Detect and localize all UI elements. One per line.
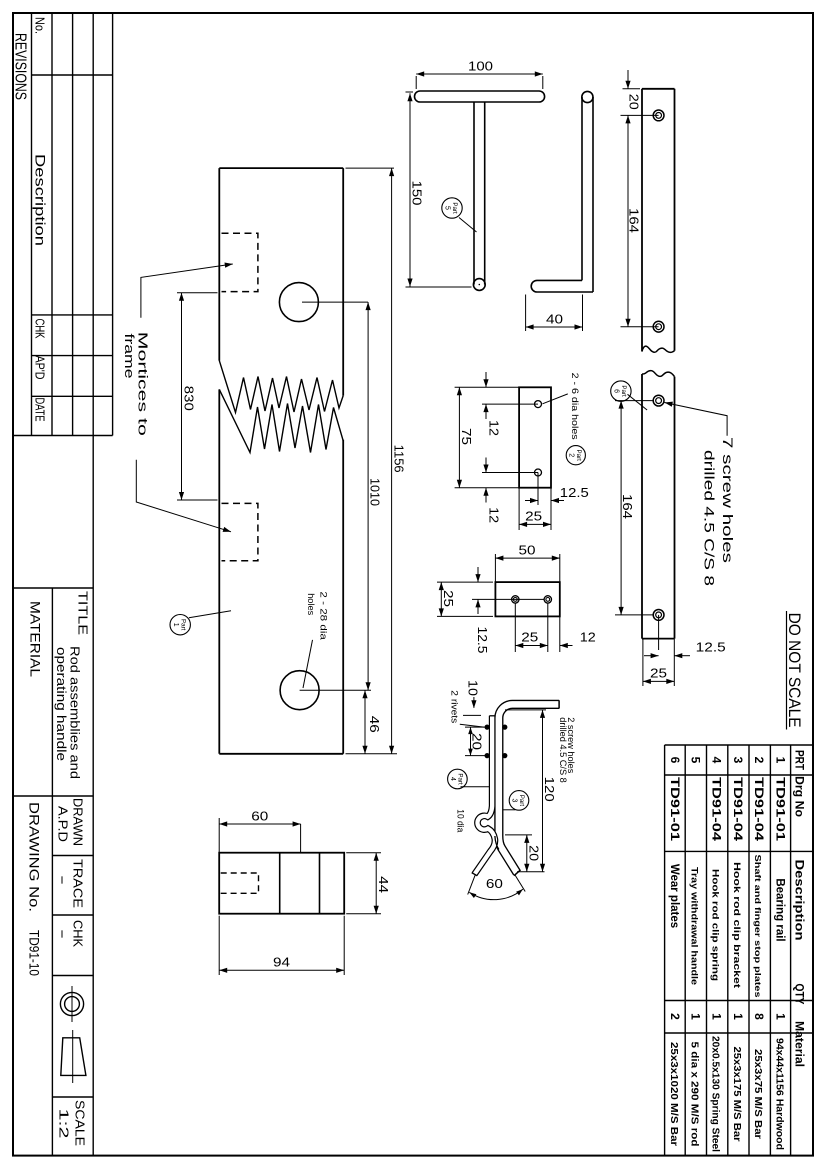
svg-text:TD91-10: TD91-10 xyxy=(27,930,42,976)
svg-text:25x3x1020 M/S Bar: 25x3x1020 M/S Bar xyxy=(668,1042,680,1146)
svg-text:holes: holes xyxy=(305,593,316,615)
svg-text:2 - 6 dia holes: 2 - 6 dia holes xyxy=(569,373,580,440)
svg-text:Hook rod clip bracket: Hook rod clip bracket xyxy=(731,862,742,989)
svg-text:8: 8 xyxy=(752,1013,766,1020)
svg-text:Bearing rail: Bearing rail xyxy=(774,878,786,941)
svg-text:TRACE: TRACE xyxy=(71,859,85,908)
svg-text:1156: 1156 xyxy=(392,445,406,473)
svg-text:1: 1 xyxy=(688,1013,702,1020)
svg-text:60: 60 xyxy=(486,877,503,891)
svg-text:12.5: 12.5 xyxy=(475,627,489,654)
svg-text:Tray withdrawal handle: Tray withdrawal handle xyxy=(688,867,699,985)
svg-text:TD91-04: TD91-04 xyxy=(710,777,722,842)
svg-text:operating handle: operating handle xyxy=(54,647,68,761)
svg-text:Part: Part xyxy=(518,795,525,807)
svg-text:Description: Description xyxy=(33,154,48,246)
svg-text:drilled 4.5 C/S 8: drilled 4.5 C/S 8 xyxy=(558,717,568,783)
svg-text:164: 164 xyxy=(620,494,634,519)
svg-text:12.5: 12.5 xyxy=(696,641,726,655)
svg-text:20: 20 xyxy=(469,733,483,750)
svg-text:164: 164 xyxy=(627,208,641,233)
svg-text:94x44x1156 Hardwood: 94x44x1156 Hardwood xyxy=(774,1038,786,1150)
svg-text:75: 75 xyxy=(459,428,473,445)
svg-text:2: 2 xyxy=(567,453,574,457)
svg-text:-: - xyxy=(56,875,70,885)
svg-text:Part: Part xyxy=(620,385,627,397)
svg-text:94: 94 xyxy=(273,956,290,970)
svg-text:60: 60 xyxy=(251,809,268,823)
svg-text:TD91-04: TD91-04 xyxy=(752,777,764,842)
svg-text:7 screw holes: 7 screw holes xyxy=(720,437,735,563)
svg-text:50: 50 xyxy=(519,543,536,557)
svg-text:REVISIONS: REVISIONS xyxy=(12,33,29,100)
svg-text:DRAWN: DRAWN xyxy=(71,798,85,846)
svg-text:12.5: 12.5 xyxy=(560,486,589,500)
svg-text:2 rivets: 2 rivets xyxy=(449,690,460,723)
svg-text:25x3x75 M/S Bar: 25x3x75 M/S Bar xyxy=(752,1049,764,1139)
svg-text:Hook rod clip spring: Hook rod clip spring xyxy=(710,869,721,981)
svg-text:44: 44 xyxy=(376,876,390,893)
svg-text:40: 40 xyxy=(546,312,563,326)
svg-text:Part: Part xyxy=(179,619,186,631)
svg-text:Description: Description xyxy=(793,860,807,941)
svg-text:12: 12 xyxy=(487,420,501,436)
svg-text:AP'D: AP'D xyxy=(33,356,47,380)
svg-text:25: 25 xyxy=(650,667,667,681)
svg-text:1: 1 xyxy=(774,757,788,764)
svg-text:TD91-01: TD91-01 xyxy=(668,777,680,842)
svg-text:5: 5 xyxy=(688,757,702,764)
svg-text:1: 1 xyxy=(774,1013,788,1020)
svg-text:DO NOT SCALE: DO NOT SCALE xyxy=(785,613,804,728)
svg-text:SCALE: SCALE xyxy=(73,1100,87,1146)
svg-text:A.P.D: A.P.D xyxy=(56,806,70,842)
svg-text:CHK: CHK xyxy=(71,920,85,948)
svg-text:6: 6 xyxy=(668,757,682,764)
svg-text:Wear plates: Wear plates xyxy=(668,864,680,928)
svg-text:TD91-01: TD91-01 xyxy=(774,777,786,842)
svg-text:CHK: CHK xyxy=(33,319,47,339)
svg-text:10 dia: 10 dia xyxy=(455,809,466,833)
svg-text:150: 150 xyxy=(410,181,424,206)
svg-text:120: 120 xyxy=(542,777,556,802)
svg-text:12: 12 xyxy=(487,507,501,523)
svg-text:12: 12 xyxy=(580,631,596,645)
svg-text:3: 3 xyxy=(511,798,518,802)
svg-text:4: 4 xyxy=(710,757,724,764)
svg-text:20x0.5x130 Spring Steel: 20x0.5x130 Spring Steel xyxy=(710,1036,722,1152)
svg-text:PRT: PRT xyxy=(793,750,807,771)
svg-text:1: 1 xyxy=(710,1013,724,1020)
svg-text:-: - xyxy=(56,929,70,939)
svg-text:MATERIAL: MATERIAL xyxy=(28,601,43,678)
svg-text:2: 2 xyxy=(668,1013,682,1020)
svg-text:20: 20 xyxy=(527,845,541,861)
svg-text:1:2: 1:2 xyxy=(57,1109,71,1139)
svg-text:Drg No: Drg No xyxy=(793,776,807,817)
svg-text:3: 3 xyxy=(731,757,745,764)
svg-text:TITLE: TITLE xyxy=(76,591,91,635)
svg-text:4: 4 xyxy=(449,777,456,781)
svg-text:Part: Part xyxy=(575,450,582,462)
svg-text:No.: No. xyxy=(33,17,48,34)
svg-text:25x3x175 M/S Bar: 25x3x175 M/S Bar xyxy=(731,1047,743,1142)
svg-text:frame: frame xyxy=(122,334,137,379)
svg-text:DRAWING No.: DRAWING No. xyxy=(27,802,42,912)
svg-text:46: 46 xyxy=(367,716,381,733)
svg-text:1: 1 xyxy=(731,1013,745,1020)
svg-text:Rod assemblies and: Rod assemblies and xyxy=(68,646,82,779)
svg-text:25: 25 xyxy=(525,510,542,524)
svg-text:drilled 4.5 C/S 8: drilled 4.5 C/S 8 xyxy=(702,450,717,586)
svg-text:20: 20 xyxy=(627,94,641,110)
svg-text:830: 830 xyxy=(182,386,196,411)
svg-text:2: 2 xyxy=(752,757,766,764)
svg-text:2 - 28 dia: 2 - 28 dia xyxy=(318,591,329,640)
svg-text:1010: 1010 xyxy=(368,478,382,506)
svg-text:Shaft and finger stop plates: Shaft and finger stop plates xyxy=(753,855,762,999)
svg-text:5: 5 xyxy=(444,206,451,210)
svg-text:5 dia x 290 M/S rod: 5 dia x 290 M/S rod xyxy=(688,1042,700,1147)
svg-text:10: 10 xyxy=(466,680,480,696)
svg-text:TD91-04: TD91-04 xyxy=(731,777,743,842)
svg-text:Material: Material xyxy=(793,1021,807,1067)
svg-text:100: 100 xyxy=(468,60,493,74)
svg-text:6: 6 xyxy=(613,389,620,393)
svg-text:DATE: DATE xyxy=(33,398,47,422)
svg-text:Part: Part xyxy=(457,773,464,785)
svg-text:Part: Part xyxy=(451,202,458,214)
svg-text:QTY: QTY xyxy=(793,984,807,1005)
svg-text:25: 25 xyxy=(521,630,538,644)
svg-text:25: 25 xyxy=(441,590,455,607)
svg-text:1: 1 xyxy=(172,623,179,627)
